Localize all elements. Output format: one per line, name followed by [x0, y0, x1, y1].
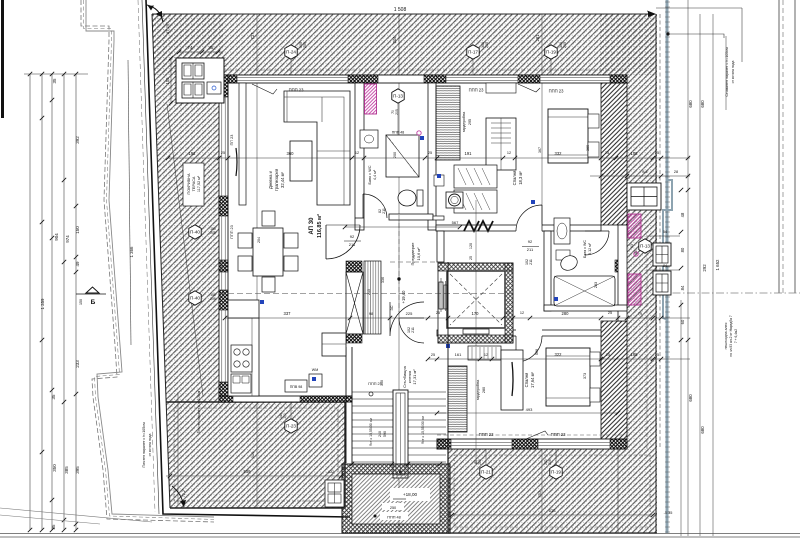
svg-text:250: 250 — [390, 506, 396, 510]
right dash-dot line y293 — [658, 292, 800, 294]
bath1 wc — [398, 190, 416, 206]
svg-text:567: 567 — [452, 220, 459, 225]
section marker B — [76, 293, 106, 295]
svg-text:48: 48 — [680, 212, 685, 217]
svg-text:35: 35 — [51, 524, 56, 530]
svg-text:109: 109 — [165, 77, 170, 85]
bedroom1 closet3 strip — [486, 83, 516, 93]
svg-text:295: 295 — [468, 119, 472, 125]
terrace outline top edge — [152, 13, 655, 15]
svg-text:трапезария: трапезария — [274, 169, 279, 191]
bedroom2 bed — [546, 348, 590, 406]
svg-text:П-24: П-24 — [286, 50, 296, 55]
steel gray footprint edge — [663, 180, 672, 320]
site boundary outer dashed polyline — [81, 0, 214, 522]
svg-text:П-19: П-19 — [546, 50, 556, 55]
terrace dashed line above top wall — [222, 69, 627, 71]
svg-text:25: 25 — [655, 151, 659, 155]
svg-text:12: 12 — [520, 311, 524, 315]
sofa L-shape — [284, 91, 350, 205]
hexagon П-21 bottom — [480, 465, 492, 479]
door bedroom2 — [516, 336, 542, 362]
site boundary inner line — [86, 0, 214, 517]
terrace label boxed — [183, 163, 204, 206]
svg-text:Плътен парапет с h=105см: Плътен парапет с h=105см — [197, 390, 201, 433]
svg-text:от котата пода: от котата пода — [731, 60, 735, 83]
blue marker near stairs — [446, 344, 450, 348]
hexagon П-19 bottom — [550, 465, 562, 479]
wall bath1 bottom / corridor — [355, 217, 364, 219]
svg-text:25: 25 — [342, 467, 346, 471]
svg-text:904: 904 — [54, 233, 59, 241]
corridor dashed axis — [390, 261, 437, 263]
svg-text:100: 100 — [283, 413, 287, 419]
svg-text:360: 360 — [287, 151, 295, 156]
svg-text:по чл.93 ал.2 от Наредба 7: по чл.93 ал.2 от Наредба 7 — [729, 315, 733, 357]
landing top dimension line — [345, 463, 448, 465]
hexagon П-17 — [467, 45, 479, 59]
svg-text:205: 205 — [485, 42, 489, 48]
concrete wall gray band with ticks — [666, 0, 669, 533]
svg-text:974: 974 — [65, 235, 70, 243]
dimension line y158 — [168, 157, 690, 159]
left dimension line 1366 — [128, 60, 131, 345]
top wall window glazing lines — [237, 78, 610, 81]
svg-text:25: 25 — [428, 151, 432, 155]
svg-text:215: 215 — [367, 289, 371, 295]
dimension line y359 — [428, 358, 690, 360]
tv bench — [239, 83, 246, 205]
bath2 shelf — [556, 250, 570, 260]
elevator stretcher symbol — [439, 282, 443, 309]
svg-text:2: 2 — [613, 170, 615, 174]
bath2 bottom wall — [544, 305, 627, 311]
svg-text:752: 752 — [537, 490, 542, 497]
wall corridor right x437 — [437, 231, 444, 262]
stairs zone white — [345, 330, 448, 533]
corridor washer — [446, 192, 463, 208]
bay window small 1 — [653, 243, 671, 266]
svg-text:П-13: П-13 — [393, 94, 403, 99]
svg-text:25: 25 — [608, 311, 612, 315]
door stairwell arc — [390, 302, 424, 336]
kitchen sink — [231, 374, 251, 393]
top wall hatch chunks — [219, 75, 237, 83]
svg-text:10,6 м²: 10,6 м² — [416, 247, 421, 261]
svg-text:90: 90 — [634, 250, 638, 254]
svg-text:45: 45 — [209, 45, 214, 50]
svg-text:385: 385 — [64, 466, 69, 474]
svg-text:72,2°: 72,2° — [182, 488, 186, 497]
svg-text:ППП 23: ППП 23 — [549, 89, 565, 94]
dining chairs — [262, 211, 275, 226]
dashed line beside bay — [646, 238, 648, 449]
svg-text:60: 60 — [680, 319, 685, 324]
svg-text:84: 84 — [680, 285, 685, 290]
bath2 wc — [558, 253, 579, 273]
stair wall chunks — [346, 261, 362, 272]
site boundary middle dashed — [84, 0, 215, 520]
svg-text:292: 292 — [702, 264, 707, 272]
elevator axis dash — [219, 293, 513, 295]
svg-text:240: 240 — [378, 431, 382, 437]
bath1 shower — [386, 135, 419, 177]
kitchen counter — [228, 318, 259, 396]
kitchen tall cabinet — [322, 333, 346, 356]
svg-text:П-13: П-13 — [640, 244, 650, 249]
svg-text:63: 63 — [630, 244, 634, 248]
svg-text:192: 192 — [189, 151, 197, 156]
dimension line y318 — [225, 317, 690, 319]
bay window large right — [627, 183, 661, 210]
svg-text:281: 281 — [535, 34, 540, 42]
svg-text:25: 25 — [436, 311, 440, 315]
right leader line parapet top — [666, 32, 669, 35]
svg-text:28: 28 — [674, 170, 678, 174]
svg-text:9ст х 15,55/30 см: 9ст х 15,55/30 см — [369, 418, 373, 446]
svg-text:ЗС: ЗС — [390, 305, 394, 310]
roof terrace hatch bottom-left block — [166, 402, 345, 508]
svg-text:П-21: П-21 — [481, 470, 491, 475]
window symbol box in terrace — [325, 480, 344, 507]
svg-text:1 359: 1 359 — [40, 298, 45, 310]
svg-text:395: 395 — [75, 466, 80, 474]
elevator shaft frame — [438, 263, 513, 343]
left dimension long line 1359 — [29, 74, 31, 530]
svg-text:310: 310 — [250, 451, 255, 458]
bedroom1 wardrobe left — [436, 86, 460, 160]
right wall middle segment — [618, 225, 627, 321]
svg-text:35: 35 — [52, 78, 57, 84]
svg-text:Спалня: Спалня — [512, 171, 517, 186]
svg-text:пешеходна алея: пешеходна алея — [724, 322, 728, 349]
bedroom1 closet2 — [486, 118, 516, 170]
svg-text:367: 367 — [538, 147, 542, 153]
wall bedroom1 bottom — [436, 225, 601, 231]
svg-text:7 + 6,4м2: 7 + 6,4м2 — [734, 329, 738, 343]
bedroom2 closet2 — [501, 350, 523, 410]
svg-text:80: 80 — [680, 247, 685, 252]
svg-text:АП 30: АП 30 — [309, 217, 315, 235]
left wall window glazing lines — [222, 97, 225, 382]
svg-text:ТЕРАСА: ТЕРАСА — [192, 176, 196, 191]
stair upper flight ladder strip — [364, 261, 381, 334]
bedroom1 window sash diagonal — [518, 84, 540, 92]
top dimension line 1508 — [155, 13, 655, 15]
svg-text:17,64 м²: 17,64 м² — [530, 371, 535, 388]
svg-text:79: 79 — [638, 312, 642, 316]
corridor shelf box — [434, 175, 444, 186]
svg-text:205: 205 — [563, 42, 567, 48]
svg-text:211: 211 — [349, 242, 356, 247]
svg-text:680: 680 — [688, 100, 693, 108]
svg-text:гардеробна: гардеробна — [476, 379, 480, 400]
svg-text:98: 98 — [369, 312, 373, 316]
dining table — [253, 228, 283, 276]
door bath1 arc — [363, 194, 387, 218]
svg-text:25: 25 — [655, 353, 659, 357]
svg-text:ПП 23: ПП 23 — [230, 135, 234, 146]
main entrance door living — [326, 225, 360, 259]
bath2 washbasin — [554, 218, 570, 244]
storage dims — [179, 51, 222, 53]
svg-text:гардеробна: гардеробна — [462, 111, 466, 132]
washing machine — [309, 374, 322, 387]
witness line x476 — [475, 200, 477, 464]
right dashed edge line — [659, 14, 661, 449]
svg-text:680: 680 — [688, 394, 693, 402]
svg-text:211: 211 — [529, 259, 533, 265]
svg-text:205: 205 — [548, 459, 552, 465]
bedroom1 lower closet — [454, 190, 497, 213]
svg-text:Спалня: Спалня — [524, 373, 529, 388]
svg-text:25: 25 — [606, 353, 610, 357]
hexagon П-40 left lower — [189, 291, 201, 305]
svg-text:1 652: 1 652 — [715, 259, 720, 271]
door bath2 arc — [585, 231, 609, 255]
svg-text:9ст х 15,55/30 см: 9ст х 15,55/30 см — [421, 416, 425, 444]
storage niche right — [207, 82, 221, 94]
roof terrace hatch bottom-right block — [448, 449, 657, 533]
bedroom2 top wall — [437, 330, 601, 336]
svg-text:П-40: П-40 — [190, 230, 200, 235]
elevator cab — [447, 271, 505, 328]
svg-text:3,12 м²: 3,12 м² — [588, 242, 592, 254]
svg-text:332: 332 — [555, 151, 563, 156]
kitchen stove — [231, 345, 252, 372]
svg-text:493: 493 — [526, 407, 533, 412]
kitchen vent box — [285, 380, 307, 392]
svg-text:+19,40: +19,40 — [401, 290, 406, 304]
hexagon П-13 bath1 — [392, 89, 404, 103]
svg-text:211: 211 — [382, 208, 386, 214]
landing dim 250 — [382, 503, 404, 510]
svg-text:ППП 23: ППП 23 — [479, 432, 495, 437]
far right boundary pair — [779, 0, 795, 293]
stair treads — [352, 392, 446, 462]
dimension 54 right — [646, 235, 680, 237]
svg-text:161: 161 — [455, 352, 462, 357]
svg-text:П-17: П-17 — [468, 50, 478, 55]
svg-text:170: 170 — [472, 311, 480, 316]
svg-text:ППП 48: ППП 48 — [387, 516, 400, 520]
svg-text:Плътен парапет с h=105см: Плътен парапет с h=105см — [142, 422, 146, 468]
svg-text:-1.35: -1.35 — [664, 511, 673, 515]
bath2 left wall — [544, 231, 551, 311]
svg-text:П-40: П-40 — [190, 296, 200, 301]
terrace outline left slanted edge — [152, 14, 170, 508]
pink circle marker 1 — [417, 131, 421, 135]
tv panel — [236, 148, 237, 176]
svg-text:205: 205 — [210, 297, 216, 301]
bedroom2 window sash diagonal — [526, 431, 548, 439]
svg-text:337: 337 — [284, 311, 292, 316]
svg-text:211: 211 — [527, 247, 534, 252]
svg-text:Баня с WC: Баня с WC — [368, 165, 372, 184]
svg-text:283: 283 — [594, 282, 598, 288]
pink wall insert right 1 — [628, 214, 641, 238]
svg-text:ППП 23: ППП 23 — [368, 382, 381, 386]
stair stringer rails — [393, 390, 408, 478]
svg-text:509: 509 — [244, 469, 252, 474]
svg-text:1 366: 1 366 — [129, 246, 134, 258]
svg-text:ППП 23: ППП 23 — [289, 88, 305, 93]
storage inner cabinets — [182, 63, 204, 79]
storage room outline — [176, 58, 224, 103]
plot boundary thick slanted line — [146, 0, 350, 517]
terrace outline right edge — [655, 14, 657, 533]
svg-text:336: 336 — [381, 277, 385, 283]
right dimension vertical x688 — [687, 0, 689, 536]
bedroom2 top cabinet — [468, 346, 501, 360]
top witness line x542 — [542, 14, 618, 533]
svg-text:211: 211 — [411, 327, 415, 333]
svg-text:25: 25 — [431, 353, 435, 357]
svg-text:205: 205 — [478, 459, 482, 465]
svg-text:84: 84 — [663, 264, 667, 268]
stairwell outline — [346, 262, 448, 465]
bottom wall dashed offset — [437, 434, 627, 436]
svg-text:350: 350 — [52, 464, 57, 472]
landing entry dot — [374, 515, 377, 518]
roof terrace hatch right band — [600, 14, 657, 449]
svg-text:+18,00: +18,00 — [403, 492, 418, 497]
kitchen counter top leg — [228, 300, 259, 318]
svg-text:ППВ 98: ППВ 98 — [290, 385, 303, 389]
bath2 bathtub — [554, 276, 615, 306]
landing label — [380, 512, 408, 520]
svg-text:Стоманен парапет с h=105см: Стоманен парапет с h=105см — [725, 47, 729, 97]
plot boundary dashed companion — [138, 0, 155, 512]
svg-text:108: 108 — [631, 352, 639, 357]
svg-text:ППП 23: ППП 23 — [551, 432, 567, 437]
svg-text:590: 590 — [383, 431, 387, 437]
stair upper flight X-box — [346, 272, 363, 334]
right dimension vertical x681 — [680, 300, 682, 536]
leader line parapet left — [167, 104, 203, 396]
roof terrace hatch left band — [152, 14, 224, 402]
svg-text:200: 200 — [393, 152, 397, 158]
svg-text:204: 204 — [257, 237, 261, 243]
svg-text:116,85 м²: 116,85 м² — [316, 214, 323, 238]
road line bottom 1 — [0, 533, 800, 535]
svg-text:25: 25 — [469, 256, 473, 260]
svg-text:233: 233 — [75, 360, 80, 368]
svg-text:680: 680 — [700, 426, 705, 434]
kitchen bottom wall — [219, 396, 352, 402]
bottom exterior wall band — [437, 439, 627, 449]
svg-text:322: 322 — [555, 352, 563, 357]
pink circle marker 2 — [634, 252, 638, 256]
svg-text:280: 280 — [562, 311, 570, 316]
svg-text:369: 369 — [586, 145, 590, 151]
pink wall insert right 2 — [628, 274, 641, 305]
svg-text:244: 244 — [392, 36, 397, 44]
witness line in bottom-left block — [177, 392, 179, 505]
bath1 sink — [360, 130, 378, 148]
svg-text:680: 680 — [700, 100, 705, 108]
svg-text:32,44 м²: 32,44 м² — [280, 171, 285, 188]
svg-text:150: 150 — [79, 299, 83, 305]
svg-text:18,3 м²: 18,3 м² — [518, 171, 523, 185]
svg-text:205: 205 — [210, 231, 216, 235]
dimension line y176 right — [590, 175, 690, 177]
svg-text:1 508: 1 508 — [394, 7, 407, 13]
svg-text:ППП 23: ППП 23 — [230, 225, 234, 238]
svg-text:П-23: П-23 — [286, 424, 296, 429]
svg-text:25: 25 — [605, 151, 609, 155]
left dimension top terminal — [24, 73, 88, 75]
svg-text:-.622: -.622 — [326, 470, 334, 474]
window sash diagonal — [252, 84, 277, 94]
svg-text:727: 727 — [250, 32, 255, 40]
angle arc top corner — [147, 5, 163, 22]
svg-text:150: 150 — [75, 226, 80, 234]
svg-text:17,31 м²: 17,31 м² — [412, 369, 417, 385]
svg-text:12: 12 — [484, 353, 488, 357]
svg-text:Баня с WC: Баня с WC — [583, 240, 587, 258]
svg-text:280: 280 — [482, 387, 486, 393]
svg-text:191: 191 — [465, 151, 473, 156]
svg-text:120: 120 — [469, 243, 473, 249]
terrace outline bottom-left block — [166, 402, 345, 508]
bay window small 2 — [653, 271, 671, 295]
wall chunk right x615 — [615, 260, 625, 272]
elevator door — [463, 329, 489, 334]
bedroom1 bed — [548, 109, 588, 163]
road line bottom 2 — [0, 536, 800, 538]
door bedroom1 — [516, 205, 542, 231]
svg-text:12: 12 — [507, 151, 511, 155]
svg-text:12: 12 — [355, 151, 359, 155]
pink wall insert top — [365, 84, 377, 114]
svg-text:373: 373 — [583, 373, 587, 379]
svg-text:4,4 м²: 4,4 м² — [373, 169, 377, 180]
road slant bottom left — [0, 508, 152, 524]
plot boundary inner thin line — [142, 0, 159, 514]
svg-text:ППП 23: ППП 23 — [469, 88, 485, 93]
angle arc bottom-left block — [172, 486, 184, 507]
top right short line — [656, 7, 742, 9]
svg-text:205: 205 — [395, 109, 399, 115]
terrace inner dashed offset bottom-right — [454, 455, 650, 527]
svg-text:25: 25 — [506, 311, 510, 315]
svg-text:WM: WM — [312, 368, 318, 372]
svg-text:П-19: П-19 — [551, 470, 561, 475]
svg-text:508: 508 — [535, 349, 539, 355]
svg-text:225: 225 — [406, 311, 413, 316]
svg-text:87,76°: 87,76° — [165, 22, 170, 34]
coffee table — [290, 141, 312, 181]
corridor zigzag shaft — [464, 221, 493, 231]
svg-text:25: 25 — [221, 151, 225, 155]
svg-text:49: 49 — [75, 261, 80, 267]
top witness line x399 — [398, 14, 400, 533]
svg-text:8,4: 8,4 — [642, 170, 647, 174]
landing white patch — [390, 488, 430, 501]
dimension 509 — [166, 475, 345, 477]
dimension 618 — [448, 514, 657, 516]
black edge bar top-left — [1, 0, 4, 118]
svg-text:от котата пода: от котата пода — [148, 433, 152, 456]
svg-text:Дневна и: Дневна и — [268, 170, 273, 189]
right dimension vertical x713 — [712, 14, 714, 536]
dimension 567 — [345, 226, 460, 228]
terrace inner dashed offset bottom-left — [174, 408, 338, 501]
stair direction line — [400, 393, 402, 475]
left dimension chain lines — [42, 74, 76, 530]
top edge arrowhead — [647, 11, 656, 17]
